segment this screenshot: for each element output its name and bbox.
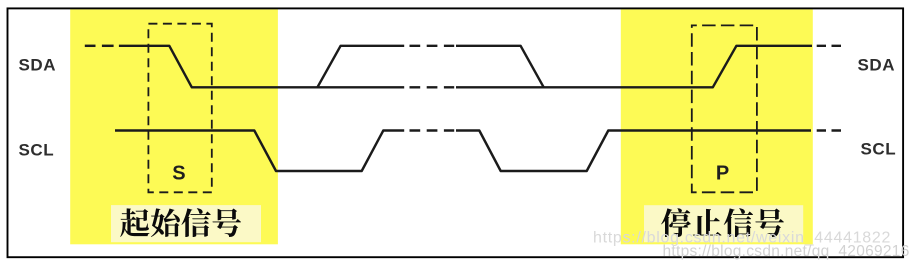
- svg-text:SDA: SDA: [858, 56, 896, 75]
- svg-text:S: S: [172, 163, 185, 185]
- svg-text:SCL: SCL: [861, 140, 897, 159]
- svg-text:P: P: [716, 163, 729, 185]
- wire SCL mid dashes: [410, 129, 455, 131]
- wire SCL: high, fall, low, rise, long high run: [456, 131, 811, 172]
- stop-signal yellow highlight band: [621, 9, 813, 244]
- start label text 起始信号: [120, 208, 149, 237]
- wire SDA right dashes: [817, 45, 841, 47]
- wire SDA left dash 1: [85, 45, 96, 47]
- wire SCL: high run, fall, low, clock rise: [115, 131, 404, 172]
- svg-text:https://blog.csdn.net/qq_42069: https://blog.csdn.net/qq_42069216: [663, 243, 910, 260]
- stop condition dashed box: [692, 25, 757, 192]
- wire SDA data pulse: rise, high run: [317, 46, 404, 88]
- svg-text:SCL: SCL: [19, 141, 55, 160]
- wire SDA start: high, falling edge in S box, low run: [119, 46, 404, 88]
- stop label cream box: [644, 205, 803, 242]
- start condition dashed box: [148, 24, 211, 193]
- wire SDA data pulse high dashes: [410, 45, 455, 47]
- wire SDA data pulse: high run, fall: [456, 46, 544, 88]
- start-signal yellow highlight band: [70, 9, 278, 244]
- svg-text:SDA: SDA: [19, 56, 57, 75]
- stop label text 停止信号: [661, 208, 691, 237]
- wire SDA left dash 2: [102, 45, 114, 47]
- start label cream box: [111, 205, 261, 242]
- wire SDA low mid dashes: [410, 86, 455, 88]
- wire SDA low run, rising edge in P box, high run: [456, 46, 812, 88]
- wire SCL right dashes: [817, 129, 841, 131]
